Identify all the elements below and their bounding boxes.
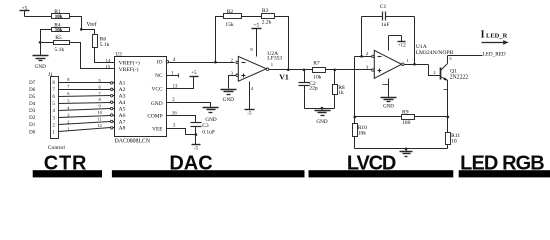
svg-text:D7: D7 [29,81,36,86]
svg-text:8: 8 [98,97,101,102]
junction [360,55,363,58]
ground [33,56,49,71]
junction [405,148,408,151]
svg-text:A1: A1 [119,81,126,87]
DAC U3 DAC0808LCN [115,52,167,145]
net label ILED_R current arrow [481,29,509,44]
wire collector [447,56,449,64]
wire C2 to gnd [305,108,323,110]
wire D2 bus [59,110,115,117]
junction [303,69,306,72]
junction [353,116,356,119]
junction [195,133,198,136]
capacitor C3 [191,123,216,136]
wire D7 bus [59,77,115,84]
svg-text:COMP: COMP [147,113,162,119]
capacitor C1 [362,4,415,65]
wire DAC GND [167,103,211,108]
section bar LED RGB [459,170,550,177]
pin 1 (Q1 emitter) [444,89,448,91]
svg-text:GND: GND [35,64,46,70]
wire D6 bus [59,84,115,90]
svg-text:D3: D3 [29,109,36,114]
wire D1 bus [59,116,115,124]
svg-text:4: 4 [251,86,254,91]
svg-text:A3: A3 [119,94,126,100]
wire rail right [415,116,448,118]
ground (DAC) [203,108,219,123]
svg-text:8: 8 [67,77,70,82]
svg-text:1: 1 [271,62,274,67]
svg-text:A6: A6 [119,113,126,119]
svg-text:3: 3 [173,123,176,128]
svg-text:5: 5 [67,98,70,103]
wire feedback R2 [216,17,224,63]
svg-text:GND: GND [316,119,327,125]
power -5 (U2A) [245,110,255,117]
wire [406,149,408,152]
svg-text:9: 9 [98,104,101,109]
svg-text:1k: 1k [338,90,344,96]
junction [446,116,449,119]
wire R3 to output [275,17,289,70]
resistor R2 [224,9,242,28]
power -5 (VEE) [192,145,201,152]
svg-text:IO: IO [157,60,163,66]
svg-text:A4: A4 [119,100,126,106]
wire R8 to gnd [323,108,335,110]
wire D0 bus [59,123,115,132]
wire to Q1 base [429,65,441,76]
svg-text:2: 2 [67,120,69,125]
svg-text:GND: GND [383,104,394,109]
svg-text:GND: GND [223,97,234,103]
resistor R1 [52,9,70,20]
svg-text:2: 2 [366,51,369,56]
ground (U1A) [381,98,397,110]
svg-text:+12: +12 [398,43,407,49]
svg-text:10k: 10k [358,131,367,137]
svg-text:VREF(+): VREF(+) [119,60,140,67]
power +5 [20,5,30,16]
svg-text:R7: R7 [313,61,320,67]
svg-text:A8: A8 [119,126,126,132]
svg-text:6: 6 [98,84,101,89]
svg-text:+5: +5 [191,70,197,76]
svg-text:R3: R3 [262,8,269,14]
svg-text:5.1k: 5.1k [54,47,64,53]
op-amp U2A LF353 [231,51,283,81]
svg-text:VCC: VCC [152,87,163,93]
wire [70,43,115,69]
wire LED_RED [448,55,483,57]
wire C3 bottom [195,127,197,135]
node Vref [80,28,83,31]
svg-text:2: 2 [433,70,436,75]
wire U2A pin3 [229,76,236,89]
ground (C2/R8) [315,111,331,126]
svg-text:-5: -5 [194,146,199,152]
svg-text:1uF: 1uF [381,22,390,28]
wire D4 bus [59,97,115,103]
svg-text:C3: C3 [202,123,209,129]
wire feedback [354,57,356,117]
wire emitter [447,81,449,117]
svg-text:1: 1 [406,58,409,63]
svg-text:7: 7 [98,91,101,96]
wire VCC [167,77,194,89]
power +5 (VCC) [190,70,199,76]
svg-text:V1: V1 [279,72,289,81]
ground (rail) [400,152,413,157]
svg-text:0.1uF: 0.1uF [202,129,215,135]
svg-text:Control: Control [48,145,66,151]
wire [82,30,95,35]
svg-text:8: 8 [250,47,253,52]
ground (U2A) [221,90,237,103]
svg-text:1: 1 [67,127,69,132]
pin 11 [383,84,389,86]
wire bottom rail [355,148,448,150]
svg-text:I: I [481,29,485,40]
wire U1A pin2 [355,56,372,58]
section bar LVCD [309,170,454,177]
wire [41,30,52,56]
power +5 (U2A) [252,23,262,29]
svg-text:14: 14 [106,58,111,63]
wire [195,135,197,145]
svg-text:VEE: VEE [152,127,163,133]
svg-text:-5: -5 [247,111,252,117]
svg-text:VREF(-): VREF(-) [119,66,139,73]
wire U1A gnd pin [388,79,390,98]
section bar CTR [33,170,102,177]
pin 4 IO [166,58,176,63]
junction [333,69,336,72]
svg-text:15k: 15k [225,22,234,28]
svg-text:10k: 10k [55,29,63,34]
svg-text:3: 3 [449,56,451,61]
svg-text:D6: D6 [29,88,36,93]
svg-text:R2: R2 [227,9,234,15]
resistor R6 [93,35,110,48]
resistor R10 [353,117,368,149]
svg-text:22p: 22p [309,86,318,92]
svg-text:12: 12 [97,123,101,128]
wire [41,42,54,44]
svg-text:10: 10 [451,139,457,145]
wire IO to U2A [169,62,235,64]
pin 1 NC stub [167,71,179,77]
wire [371,69,373,71]
svg-text:D5: D5 [29,95,36,100]
svg-text:2N2222: 2N2222 [450,74,469,80]
transistor Q1 2N2222 [441,64,469,81]
power +12 [389,36,407,51]
wire [25,16,52,18]
wire D3 bus [59,104,115,111]
svg-text:2: 2 [231,57,234,62]
wire [242,16,262,18]
junction [39,41,42,44]
svg-text:D1: D1 [29,123,36,128]
wire COMP [167,116,196,123]
wire VEE [167,129,196,135]
wire U2A output [269,69,289,71]
svg-text:10: 10 [97,110,102,115]
svg-text:3: 3 [231,70,234,75]
svg-text:11: 11 [97,116,101,121]
svg-text:+5: +5 [254,23,260,29]
svg-text:2.2k: 2.2k [262,20,272,26]
svg-text:Vref: Vref [86,21,96,28]
svg-text:R1: R1 [54,9,61,15]
resistor R3 [262,8,275,26]
resistor R9 [402,110,415,126]
resistor R5 [54,35,70,53]
svg-text:6: 6 [67,91,70,96]
svg-text:D4: D4 [29,102,36,107]
svg-text:D0: D0 [29,130,36,135]
op-amp U1A LM324N/NOPB [366,44,454,78]
wire D5 bus [59,91,115,97]
svg-text:GND: GND [205,117,216,123]
node V1 [287,68,290,71]
junction [413,63,416,66]
resistor R11 [446,117,461,149]
svg-text:C1: C1 [380,4,387,10]
svg-text:7: 7 [67,84,70,89]
wire [249,82,251,110]
wire [326,69,372,71]
svg-text:D2: D2 [29,116,36,121]
resistor R8 [333,70,345,109]
junction feedback [214,61,217,64]
svg-text:NC: NC [155,73,163,79]
wire [95,48,115,63]
svg-text:A7: A7 [119,119,126,125]
svg-text:10k: 10k [55,15,63,20]
svg-text:R4: R4 [54,22,61,28]
wire rail left [355,116,402,118]
wire [70,17,82,30]
svg-text:GND: GND [151,101,163,107]
svg-text:100: 100 [402,120,411,126]
svg-text:10k: 10k [313,75,322,81]
resistor R7 [313,61,326,81]
svg-text:LF353: LF353 [267,56,282,62]
svg-text:R9: R9 [402,110,409,116]
section bar DAC [112,170,305,177]
svg-text:LED_RED: LED_RED [483,51,506,57]
svg-text:5.1k: 5.1k [100,42,110,48]
svg-text:15: 15 [106,64,111,69]
wire U1A output [405,64,429,66]
junction [321,107,324,110]
wire [256,29,258,57]
capacitor C2 [299,70,318,109]
resistor R4 [52,22,70,33]
svg-text:A2: A2 [119,87,126,93]
connector J1 [48,72,66,151]
svg-text:DAC0808LCN: DAC0808LCN [115,138,151,144]
wire [289,69,313,71]
svg-text:LED_R: LED_R [486,32,508,39]
svg-text:3: 3 [366,64,369,69]
svg-text:R5: R5 [55,35,62,41]
svg-text:A5: A5 [119,106,126,112]
